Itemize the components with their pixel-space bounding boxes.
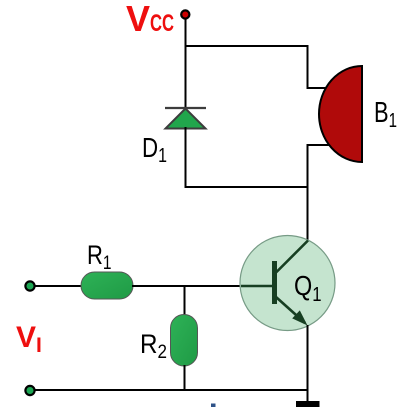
wire R1 to base <box>132 285 241 287</box>
wire top horizontal <box>185 45 308 47</box>
wire input to R1 <box>34 285 82 287</box>
resistor R2 <box>171 315 198 367</box>
wire R2 bottom <box>184 365 186 391</box>
transistor Q1 <box>240 236 335 331</box>
buzzer B1 <box>319 66 362 162</box>
wire VCC to diode cathode <box>185 18 187 108</box>
ground <box>296 401 320 407</box>
svg-text:B1: B1 <box>374 97 397 132</box>
diode D1 <box>165 108 206 129</box>
cropped caption mark <box>211 404 216 407</box>
svg-text:D1: D1 <box>142 132 167 167</box>
svg-text:R2: R2 <box>140 329 167 363</box>
wire collector vertical <box>307 144 309 241</box>
svg-text:VCC: VCC <box>126 0 174 39</box>
terminal input top <box>25 281 34 290</box>
wire buzzer bottom lead <box>307 144 331 146</box>
wire R2 top <box>184 285 186 316</box>
wire right vertical to buzzer top <box>307 45 309 89</box>
svg-text:R1: R1 <box>87 240 112 274</box>
wire diode anode down <box>185 127 187 188</box>
wire diode to collector node <box>185 186 308 188</box>
svg-text:VI: VI <box>16 321 42 357</box>
terminal input bottom <box>25 386 34 395</box>
resistor R1 <box>81 272 133 299</box>
wire buzzer top lead <box>307 87 328 89</box>
node VCC <box>181 10 189 18</box>
wire emitter to ground <box>307 325 309 402</box>
wire bottom horizontal <box>34 389 308 391</box>
